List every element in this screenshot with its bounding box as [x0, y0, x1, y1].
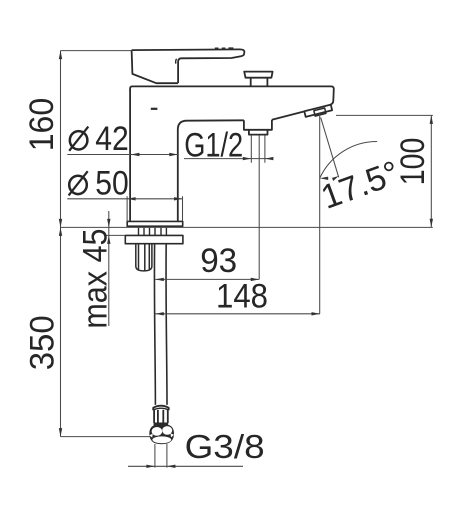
handle base hook detail [175, 59, 178, 64]
hose nut right lobe [162, 426, 172, 435]
handle indicator dashes [215, 47, 234, 49]
arrow o50 left [127, 197, 136, 200]
svg-text:G1/2: G1/2 [184, 126, 243, 164]
arrow G3/8 right-in [146, 465, 155, 468]
arrow o42 right [169, 153, 178, 156]
faucet body top edge and spout tip [130, 86, 334, 104]
hose nut left corner notch [149, 434, 153, 438]
threaded stud below nut [136, 244, 152, 271]
extension line nut top [106, 234, 125, 236]
dimension 148 line [155, 313, 320, 315]
arrow G1/2 right-in [243, 157, 252, 160]
arrow o50 right [174, 197, 183, 200]
extension line aerator centre [319, 114, 321, 314]
extension lines hose nut [155, 444, 167, 468]
faucet body left edge [129, 90, 131, 221]
angle arc arrow at vertical [320, 177, 329, 180]
mounting nut plate [125, 235, 183, 243]
arrow 160 bottom down [59, 219, 62, 228]
diverter knob flange [244, 72, 272, 78]
extension lines G1/2 outlet [251, 135, 265, 163]
arrow 148 right [312, 312, 321, 315]
arrow 160 top up [59, 51, 62, 60]
angle arc arrow at stream line [332, 176, 339, 181]
extension line spout outlet level [336, 114, 433, 116]
svg-text:160: 160 [23, 98, 61, 152]
dimension o42 line [67, 154, 178, 156]
hose nut left lobe [152, 427, 163, 436]
extension line bottom (hose nut level) [61, 436, 151, 438]
svg-text:42: 42 [95, 120, 129, 158]
G1/2 outlet upper block [244, 120, 272, 130]
shank lines between flange and nut [139, 226, 167, 235]
flexible hose [154, 244, 167, 405]
angle arc [320, 141, 378, 178]
svg-text:G3/8: G3/8 [185, 428, 265, 465]
dimension 160/350 vertical line [60, 51, 62, 437]
angle stream line 17.5deg [321, 118, 339, 178]
crimped sleeve [154, 410, 168, 423]
arrow 350 top up [59, 227, 62, 236]
dimension G3/8 line [128, 465, 243, 467]
aerator outer block [304, 105, 332, 117]
hose collar inner arc [153, 408, 169, 410]
svg-text:93: 93 [200, 242, 237, 280]
arrow G3/8 left-in [167, 465, 176, 468]
dimension G1/2 line [184, 158, 272, 160]
svg-text:350: 350 [24, 315, 62, 370]
arrow 100 top up [430, 115, 433, 124]
deck reference line [61, 226, 433, 228]
spout underside right of outlet [272, 111, 305, 119]
dimension 93 line [155, 278, 259, 280]
sleeve band [154, 423, 169, 425]
faucet handle base left edge [132, 50, 179, 83]
aerator inner block [314, 108, 326, 116]
G3/8 hose nut body [150, 425, 173, 443]
arrow 100 bottom down [430, 219, 433, 228]
arrow G1/2 left-in [265, 157, 274, 160]
extension line top (handle top level) [61, 50, 132, 52]
dimension o50 line [67, 198, 182, 200]
svg-text:148: 148 [216, 277, 268, 315]
base flange [127, 221, 183, 226]
faucet handle lever [132, 49, 245, 83]
arrow 350 bottom down [59, 428, 62, 437]
arrow o42 left [131, 153, 140, 156]
arrow 148 left [155, 312, 164, 315]
faucet column right edge with inner corner [178, 120, 244, 221]
extension line outlet centre [258, 135, 260, 279]
dimension max45 line [108, 211, 110, 326]
arrow max45 down [107, 219, 110, 228]
arrow max45 up [107, 235, 110, 244]
svg-text:max 45: max 45 [76, 229, 114, 329]
arrow 93 left [155, 278, 164, 281]
dimension 100 line [430, 115, 432, 227]
diverter knob stem [251, 78, 268, 87]
label o50 [69, 176, 87, 194]
extension lines o50 [127, 196, 182, 221]
G1/2 outlet lower block [249, 130, 268, 135]
hose collar ring [153, 406, 169, 411]
label o42 [70, 131, 88, 149]
hose nut bottom face [152, 436, 171, 443]
hose nut right corner notch [171, 433, 175, 437]
arrow 93 right [251, 278, 260, 281]
svg-text:50: 50 [95, 165, 129, 203]
column logo dash [151, 108, 158, 110]
